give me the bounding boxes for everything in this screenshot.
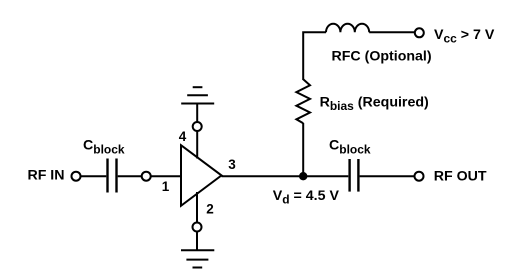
wire (node up to resistor): [302, 123, 304, 176]
pin 2 wire: [196, 192, 198, 223]
wire (resistor up and corner to RFC): [303, 32, 326, 80]
capacitor C_block (output): [350, 159, 359, 192]
label RFC (Optional): [332, 49, 432, 65]
pin 3 label: [228, 157, 236, 172]
svg-text:1: 1: [162, 179, 170, 194]
svg-text:RF OUT: RF OUT: [434, 168, 487, 184]
terminal RF OUT: [415, 172, 424, 181]
label RF OUT: [434, 168, 487, 184]
label C_block (input): [83, 138, 125, 157]
svg-text:Cblock: Cblock: [329, 138, 371, 157]
ground (bottom): [181, 232, 214, 268]
node circle (pin 1 terminal): [142, 172, 151, 181]
svg-text:Vd = 4.5 V: Vd = 4.5 V: [273, 188, 340, 207]
label Vcc > 7 V: [434, 27, 495, 46]
ground (top): [181, 87, 214, 122]
node Vd (junction dot): [299, 172, 307, 180]
terminal Vcc: [415, 28, 424, 37]
svg-text:Vcc > 7 V: Vcc > 7 V: [434, 27, 495, 46]
inductor RFC: [326, 24, 369, 33]
svg-text:4: 4: [179, 129, 187, 144]
wire (output rail to C_block): [222, 175, 349, 177]
svg-text:RFC (Optional): RFC (Optional): [332, 49, 432, 65]
wire: [369, 31, 414, 33]
op-amp U1 (amplifier triangle): [181, 145, 222, 206]
terminal RF IN: [72, 172, 81, 181]
svg-text:RF IN: RF IN: [27, 168, 64, 184]
pin 4 wire: [196, 131, 198, 158]
pin 4 label: [179, 129, 187, 144]
wire: [151, 175, 181, 177]
label Vd = 4.5 V: [273, 188, 340, 207]
svg-text:Rbias (Required): Rbias (Required): [320, 94, 429, 113]
resistor R_bias: [296, 79, 310, 123]
pin 2 label: [206, 202, 214, 217]
label R_bias (Required): [320, 94, 429, 113]
wire: [81, 175, 107, 177]
svg-text:2: 2: [206, 202, 214, 217]
label C_block (output): [329, 138, 371, 157]
label RF IN: [27, 168, 64, 184]
svg-text:Cblock: Cblock: [83, 138, 125, 157]
svg-text:3: 3: [228, 157, 236, 172]
pin 4 circle: [193, 122, 202, 131]
wire: [118, 175, 142, 177]
pin 1 label: [162, 179, 170, 194]
wire: [360, 175, 415, 177]
capacitor C_block (input): [108, 159, 117, 193]
pin 2 circle: [193, 223, 202, 232]
